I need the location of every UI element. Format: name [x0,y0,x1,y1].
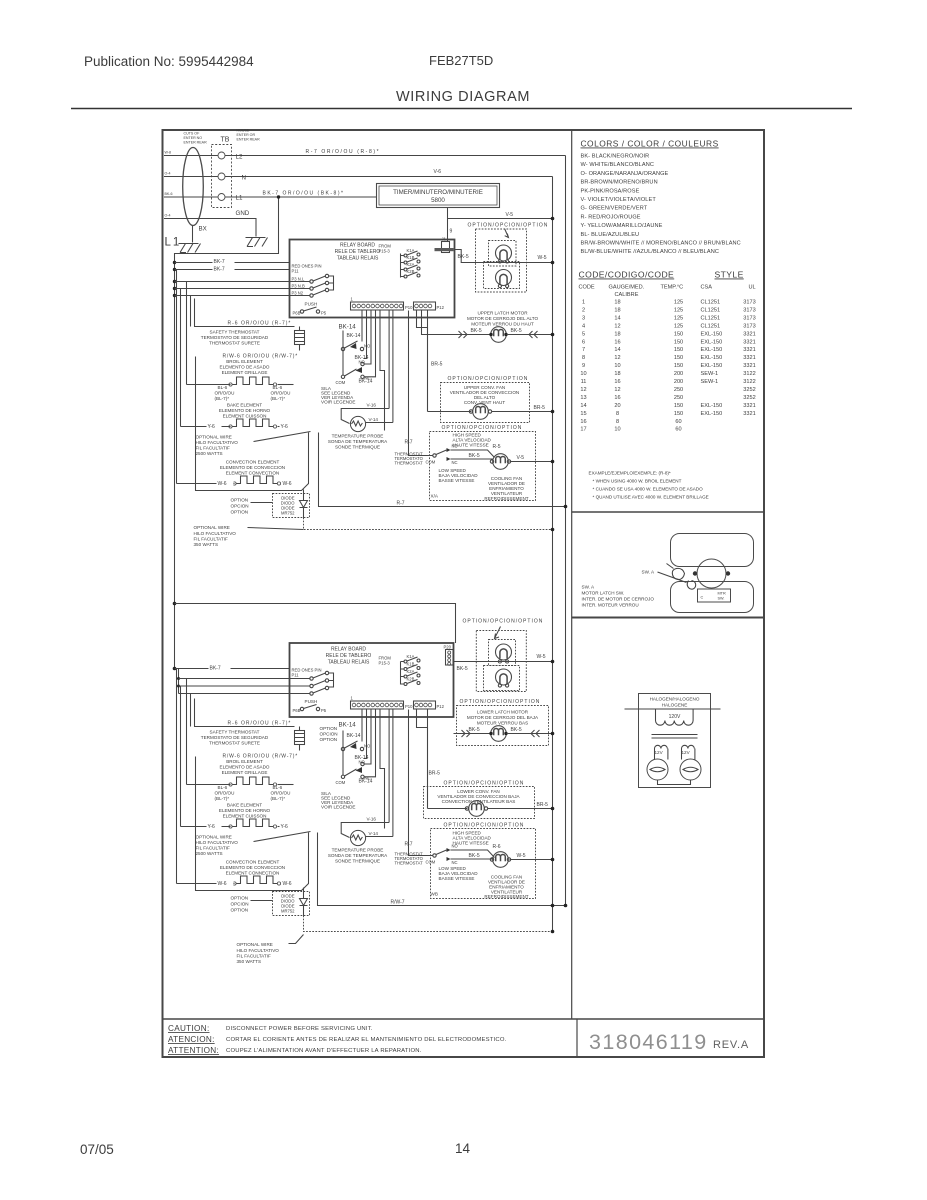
thermostat feed lower [409,710,433,856]
sw a pointer line [658,572,687,583]
svg-text:OPTION: OPTION [231,896,249,901]
label BK-7 a [213,258,235,264]
svg-text:SONDA DE TEMPERATURA: SONDA DE TEMPERATURA [328,439,388,444]
optional dashed wire to bus lower [304,916,553,932]
svg-text:R-7 OR/O/OU (R-8)*: R-7 OR/O/OU (R-8)* [306,149,381,155]
svg-text:P12: P12 [437,305,445,310]
svg-text:WIRING DIAGRAM: WIRING DIAGRAM [396,89,530,105]
safety thermostat symbol lower [295,731,305,745]
svg-text:V-6: V-6 [434,169,442,175]
strip drop wires [361,311,363,342]
svg-text:P5: P5 [321,311,327,316]
svg-text:BK-5: BK-5 [469,727,480,733]
svg-text:P12: P12 [437,704,445,709]
svg-text:V-5: V-5 [506,212,514,218]
svg-text:P11: P11 [292,673,300,678]
svg-text:RELE DE TABLERO: RELE DE TABLERO [326,653,372,659]
svg-text:OPTIONAL WIRE: OPTIONAL WIRE [196,835,232,840]
svg-text:P6B: P6B [293,708,301,713]
svg-text:MOTOR DE CERROJO DEL ALTO: MOTOR DE CERROJO DEL ALTO [467,316,538,321]
svg-text:V-16: V-16 [367,817,377,822]
conv fan wire right [492,411,553,413]
svg-text:Y-6: Y-6 [281,424,289,430]
transformer primary [656,709,694,725]
lower conv wire left [428,808,468,810]
svg-text:ELEMENT CONNECTION: ELEMENT CONNECTION [226,871,280,876]
svg-text:SW. A: SW. A [642,570,655,575]
svg-text:W-6: W-6 [283,481,292,487]
svg-text:TIMER/MINUTERO/MINUTERIE: TIMER/MINUTERO/MINUTERIE [393,189,483,196]
svg-text:BK-5: BK-5 [469,853,480,859]
svg-text:W-6: W-6 [218,881,227,887]
svg-text:MOTOR LATCH SW.: MOTOR LATCH SW. [582,591,625,596]
svg-text:ATTENTION:: ATTENTION: [168,1046,219,1055]
svg-text:HALOGENE: HALOGENE [662,703,688,708]
svg-text:2500 WATTS: 2500 WATTS [196,451,223,456]
terminal L2 [218,152,225,159]
conv fan wire left [428,411,472,413]
svg-text:NO: NO [364,344,371,349]
svg-text:BAKE ELEMENT: BAKE ELEMENT [227,803,262,808]
timer box 5800 [377,184,500,208]
svg-text:P10: P10 [405,704,413,709]
svg-text:BROIL ELEMENT: BROIL ELEMENT [226,359,263,364]
lower latch motor M [491,726,507,742]
wire L2 to bus [225,155,566,157]
svg-text:CONVECTION ELEMENT: CONVECTION ELEMENT [226,460,280,465]
cavity outline [196,357,309,491]
broil element R [197,384,231,386]
latch switch terminals [693,571,697,575]
label R-7 bottom [395,499,411,505]
svg-text:BK-5: BK-5 [511,328,522,334]
bus wire V (right vertical 1) [552,177,554,932]
svg-text:COUPEZ L'ALIMENTATION AVANT D': COUPEZ L'ALIMENTATION AVANT D'EFFECTUER … [226,1048,422,1054]
relay connector strip P12 [414,302,436,310]
svg-text:ELEMENTO DE CONVECCION: ELEMENTO DE CONVECCION [220,865,285,870]
svg-text:2500 WATTS: 2500 WATTS [196,851,223,856]
svg-text:P6B: P6B [293,311,301,316]
svg-text:ELEMENTO DE HORNO: ELEMENTO DE HORNO [219,408,271,413]
cooling fan motor lower [493,852,509,868]
svg-text:HILO FACULTATIVO: HILO FACULTATIVO [194,531,237,536]
svg-text:BK-5: BK-5 [469,453,480,459]
svg-text:MR752: MR752 [281,511,295,516]
svg-text:RELAY BOARD: RELAY BOARD [340,243,375,249]
svg-text:318046119: 318046119 [589,1030,708,1054]
svg-text:TERMOSTATO DE SEGURIDAD: TERMOSTATO DE SEGURIDAD [201,335,269,340]
lower rail taps [178,669,180,694]
svg-text:FIL FACULTATIF: FIL FACULTATIF [194,537,228,542]
svg-text:Y-6: Y-6 [208,424,216,430]
svg-text:NC: NC [365,376,371,381]
svg-text:SAFETY THERMOSTAT: SAFETY THERMOSTAT [210,730,260,735]
svg-text:REFROIDISSEMENT: REFROIDISSEMENT [484,894,528,899]
terminal block TB dashed [212,145,232,208]
svg-text:ELEMENTO DE HORNO: ELEMENTO DE HORNO [219,808,271,813]
wire BK-5 through motors [455,250,553,263]
strip drop wires lower [361,710,363,742]
svg-text:ELEMENTO DE ASADO: ELEMENTO DE ASADO [220,765,270,770]
svg-text:THERMOSTAT SURETE: THERMOSTAT SURETE [209,741,260,746]
latch switch body [698,589,731,602]
latch text block [582,585,655,608]
svg-text:REFROIDISSEMENT: REFROIDISSEMENT [484,496,528,501]
halogen box [639,694,711,788]
convection labels lower [217,880,234,886]
svg-text:R-6: R-6 [493,844,501,850]
svg-text:BK-5: BK-5 [457,666,468,672]
diode D1 [300,490,308,518]
svg-text:5800: 5800 [431,197,445,204]
BR-5 drop wire [427,311,429,412]
diode assembly dashed box lower [273,892,310,916]
svg-text:BK-5: BK-5 [471,328,482,334]
lamp wires [655,749,695,760]
svg-text:BK-5: BK-5 [511,727,522,733]
lamp 1 [647,759,668,780]
temperature probe resistor lower [350,830,365,845]
svg-text:SW. A: SW. A [582,585,595,590]
diode D2 [300,888,308,916]
cooling dashed box lower [431,829,536,899]
svg-text:INTER. DE MOTOR DE CERROJO: INTER. DE MOTOR DE CERROJO [582,597,655,602]
svg-text:VOIR LEGENDE: VOIR LEGENDE [321,400,355,405]
svg-text:K1A: K1A [407,654,415,659]
relay switch row 3 [310,294,313,297]
svg-text:12V: 12V [682,750,691,755]
relay switch row 1 [310,280,313,283]
latch cam lever [667,564,696,590]
svg-text:MOTEUR VERROU DU HAUT: MOTEUR VERROU DU HAUT [471,322,534,327]
svg-text:FIL FACULTATIF: FIL FACULTATIF [196,846,230,851]
svg-text:RELE DE TABLERO: RELE DE TABLERO [335,249,381,255]
BR-5 drop wire lower [427,710,429,809]
latch motor A sub box [489,241,517,267]
svg-text:317331733173317333213321332133: 3173317331733173332133213321332133213122… [743,300,755,417]
svg-text:V-14: V-14 [369,417,379,422]
relay2 bracket [329,673,334,687]
lower conv motor [469,801,485,817]
svg-text:L2: L2 [236,154,243,161]
svg-text:TEMPERATURE PROBE: TEMPERATURE PROBE [332,848,384,853]
optional wire pointer lower 2 [289,935,304,944]
svg-text:HILO FACULTATIVO: HILO FACULTATIVO [196,440,239,445]
safety feed wire lower [195,699,295,727]
svg-text:COM: COM [336,780,346,785]
tap wires lower [179,678,311,680]
svg-text:OPCION: OPCION [231,902,249,907]
svg-text:RELAY BOARD: RELAY BOARD [331,647,366,653]
diode assembly dashed box [273,494,310,518]
bottom wire lower section [318,833,566,906]
svg-text:OPTION/OPCION/OPTION: OPTION/OPCION/OPTION [448,376,529,382]
svg-text:K1B: K1B [407,662,415,667]
bake element R lower [197,826,231,828]
bus wire R (right vertical 2) [565,156,567,906]
svg-text:STYLE: STYLE [715,270,744,280]
option pointer line lower [251,900,273,902]
latch motor circle [697,559,726,588]
svg-text:NO: NO [359,360,366,365]
svg-text:P3 N2: P3 N2 [292,291,304,296]
svg-text:HALOGEN/HALOGENO: HALOGEN/HALOGENO [650,697,700,702]
svg-text:WB: WB [431,892,438,897]
convection labels [217,480,234,486]
svg-text:ELEMENT CUISSON: ELEMENT CUISSON [223,414,267,419]
svg-text:BK-5: BK-5 [458,254,469,260]
svg-text:TEMP.°C: TEMP.°C [661,285,684,291]
svg-text:TABLEAU RELAIS: TABLEAU RELAIS [337,256,379,262]
outer frame of diagram [163,130,765,1057]
svg-text:K1A: K1A [407,248,415,253]
ground L1 [179,244,201,253]
wire lo speed [451,458,493,460]
bake wire labels [207,423,222,429]
svg-text:BR-5: BR-5 [431,362,443,368]
wire hi speed lower [451,850,495,858]
relay2 switch row 3 [310,692,313,695]
svg-text:N: N [242,175,246,182]
cooling dashed box [430,432,536,501]
latch motor D sub box [484,666,520,691]
svg-text:NC: NC [365,776,371,781]
svg-text:120V: 120V [669,714,681,720]
svg-text:9: 9 [450,229,453,235]
wire V-5 top [448,218,553,220]
svg-text:P3 N.B: P3 N.B [292,284,305,289]
svg-text:CSA: CSA [701,285,713,291]
tap wire 4 [175,288,311,290]
BK-7 feed to lower relay [173,667,177,671]
svg-text:NO: NO [364,744,371,749]
wire L1 to rail [175,197,377,669]
svg-text:BK-7: BK-7 [210,666,221,672]
svg-text:OPTIONAL WIRE: OPTIONAL WIRE [196,435,232,440]
svg-text:R-6 OR/O/OU (R-7)*: R-6 OR/O/OU (R-7)* [228,321,292,327]
cord tail to ground [192,226,194,243]
svg-text:FIL FACULTATIF: FIL FACULTATIF [196,446,230,451]
latch motor C [496,644,512,660]
svg-text:W-5: W-5 [538,255,547,261]
svg-text:SW.: SW. [718,597,725,601]
wire L2 feed [164,155,218,157]
wire gnd feed [164,219,256,237]
divider above latch section [572,511,764,513]
wire latch to bus [507,334,553,336]
wire lower latch to bus [507,733,553,735]
svg-text:P3 N.L: P3 N.L [292,277,305,282]
caution box top [163,1018,765,1020]
svg-text:UL: UL [749,285,756,291]
svg-text:BASSE VITESSE: BASSE VITESSE [439,478,475,483]
svg-text:07/05: 07/05 [80,1142,114,1157]
svg-text:NC: NC [452,460,458,465]
latch motor D [496,669,512,685]
svg-text:SONDE THERMIQUE: SONDE THERMIQUE [335,859,380,864]
relay connector strip P10 [351,302,404,310]
lower conv fan box [424,787,535,819]
svg-text:ELEMENT CUISSON: ELEMENT CUISSON [223,814,267,819]
optional wire pointer lower [254,832,311,842]
svg-text:OPTION: OPTION [231,498,249,503]
svg-text:R/W-7: R/W-7 [391,900,405,906]
svg-text:OPTION/OPCION/OPTION: OPTION/OPCION/OPTION [442,425,523,431]
option pointer arrow [505,229,509,238]
switch chain common lower [342,731,344,776]
svg-text:BX: BX [199,226,207,233]
label R/W-7 [389,898,414,904]
relay switch row 2 [310,287,313,290]
latch dashed box lower [476,631,526,692]
svg-text:TEMPERATURE PROBE: TEMPERATURE PROBE [332,434,384,439]
transformer secondary right [682,745,695,748]
svg-text:125125125125150150150150150200: 1251251251251501501501501502002002502501… [674,300,683,433]
svg-text:THERMOSTAT SURETE: THERMOSTAT SURETE [209,341,260,346]
svg-text:MR752: MR752 [281,909,295,914]
svg-text:V-14: V-14 [369,831,379,836]
svg-text:TB: TB [221,137,230,144]
svg-text:THERMOSTAT: THERMOSTAT [395,461,424,466]
svg-text:Y-6: Y-6 [281,824,289,830]
power cord ellipse [183,148,204,226]
svg-text:CALIBRE: CALIBRE [615,292,639,298]
svg-text:W-5: W-5 [517,853,526,859]
cooling wire to bus lower [510,859,553,861]
svg-text:W-6: W-6 [218,481,227,487]
terminal L1 [218,194,225,201]
optional wire pointer [254,432,311,442]
svg-text:COM: COM [426,460,436,465]
svg-text:SONDA DE TEMPERATURA: SONDA DE TEMPERATURA [328,853,388,858]
latch motor C sub box [489,640,516,666]
thermostat feed [409,311,433,456]
svg-text:O-4: O-4 [165,214,171,218]
svg-text:O-4: O-4 [165,172,171,176]
svg-text:HAUTE VITESSE: HAUTE VITESSE [453,443,489,448]
svg-text:ELEMENTO DE ASADO: ELEMENTO DE ASADO [220,365,270,370]
svg-text:350 WATTS: 350 WATTS [237,959,262,964]
svg-text:* CUANDO SE USA 4000 W. ELEMEN: * CUANDO SE USA 4000 W. ELEMENTO DE ASAD… [593,487,704,492]
svg-text:P5: P5 [321,708,327,713]
svg-text:NO: NO [452,444,459,449]
probe loop wires [341,409,389,424]
svg-text:BASSE VITESSE: BASSE VITESSE [439,876,475,881]
svg-text:CODE: CODE [579,285,595,291]
svg-text:NC: NC [452,860,458,865]
code table rows [580,300,755,433]
svg-text:R-6 OR/O/OU (R-7)*: R-6 OR/O/OU (R-7)* [228,721,292,727]
header rule [71,108,852,110]
safety feed wire [195,299,295,327]
relay board U2 [290,643,454,717]
transformer core [652,734,698,736]
svg-text:L1: L1 [236,195,243,202]
svg-text:K2A: K2A [407,669,415,674]
ground GND [246,238,268,247]
svg-text:BK-7: BK-7 [214,259,225,265]
element rails [187,282,197,385]
svg-text:BAKE ELEMENT: BAKE ELEMENT [227,403,262,408]
svg-text:GND: GND [236,210,250,217]
svg-text:14: 14 [455,1141,471,1156]
conv fan motor [473,404,489,420]
svg-text:HILO FACULTATIVO: HILO FACULTATIVO [196,840,239,845]
wire N feed [164,176,218,178]
svg-text:K1B: K1B [407,255,415,260]
svg-text:X/A: X/A [431,494,439,499]
svg-text:BK-14: BK-14 [347,333,361,339]
convection element R [197,483,235,485]
probe loop wires lower [341,823,389,838]
svg-text:OPTION/OPCION/OPTION: OPTION/OPCION/OPTION [444,823,525,829]
svg-text:OPTIONAL WIRE: OPTIONAL WIRE [194,525,230,530]
svg-text:OPTION: OPTION [231,908,249,913]
tap wire 2 [175,269,290,271]
svg-text:Y-6: Y-6 [208,824,216,830]
wire hi speed [451,450,495,458]
svg-text:BK-14: BK-14 [339,722,357,729]
svg-text:V-16: V-16 [367,403,377,408]
svg-text:CAUTION:: CAUTION: [168,1024,210,1033]
example note [589,471,709,500]
svg-text:CONVECTION ELEMENT: CONVECTION ELEMENT [226,860,280,865]
svg-text:BK-14: BK-14 [347,733,361,739]
svg-text:R-7: R-7 [397,501,405,507]
cooling fan motor [493,454,509,470]
svg-text:BK-7: BK-7 [214,267,225,273]
svg-text:350 WATTS: 350 WATTS [194,542,219,547]
svg-text:PUSH: PUSH [305,302,318,307]
svg-text:FEB27T5D: FEB27T5D [429,53,493,68]
svg-text:UPPER LATCH MOTOR: UPPER LATCH MOTOR [477,311,528,316]
svg-text:COLORS / COLOR / COULEURS: COLORS / COLOR / COULEURS [581,139,719,149]
label BK-7 b [213,265,235,271]
svg-text:J1: J1 [442,237,447,242]
relay2 switch row 1 [310,677,313,680]
latch motor B sub box [484,262,520,289]
svg-text:EXAMPLE/EJEMPLO/EXEMPLE: (R-8): EXAMPLE/EJEMPLO/EXEMPLE: (R-8)* [589,471,671,476]
svg-text:P10: P10 [405,305,413,310]
svg-text:K2B: K2B [407,677,415,682]
svg-text:ELEMENT GRILLAGE: ELEMENT GRILLAGE [222,770,268,775]
tap wire 3 [175,281,311,283]
svg-text:OPTION/OPCION/OPTION: OPTION/OPCION/OPTION [468,223,549,229]
svg-text:* WHEN USING 4000 W. BROIL ELE: * WHEN USING 4000 W. BROIL ELEMENT [593,479,682,484]
relay board U1 [290,240,455,318]
svg-text:R-7: R-7 [405,440,413,446]
latch motor B [496,270,512,286]
svg-text:P15-3: P15-3 [379,249,391,254]
broil element R lower [197,784,231,786]
svg-text:V-5: V-5 [517,455,525,461]
svg-text:MOTOR DE CERROJO DEL BAJA: MOTOR DE CERROJO DEL BAJA [467,715,539,720]
svg-text:W-5: W-5 [537,654,546,660]
svg-text:BROIL ELEMENT: BROIL ELEMENT [226,759,263,764]
svg-text:ELEMENTO DE CONVECCION: ELEMENTO DE CONVECCION [220,465,285,470]
latch assembly lower slot [671,582,754,613]
inter-section feed wire [173,602,177,606]
svg-text:TABLEAU RELAIS: TABLEAU RELAIS [328,660,370,666]
bake wire labels lower [207,823,222,829]
svg-text:OPTION: OPTION [231,510,249,515]
lower conv wire right [488,808,553,810]
svg-text:R-5: R-5 [493,444,501,450]
wire L1 feed [164,196,218,198]
wire N to bus [225,176,553,178]
svg-text:BK-7 OR/O/OU (BK-8)*: BK-7 OR/O/OU (BK-8)* [263,191,345,197]
element rails lower [187,679,197,785]
